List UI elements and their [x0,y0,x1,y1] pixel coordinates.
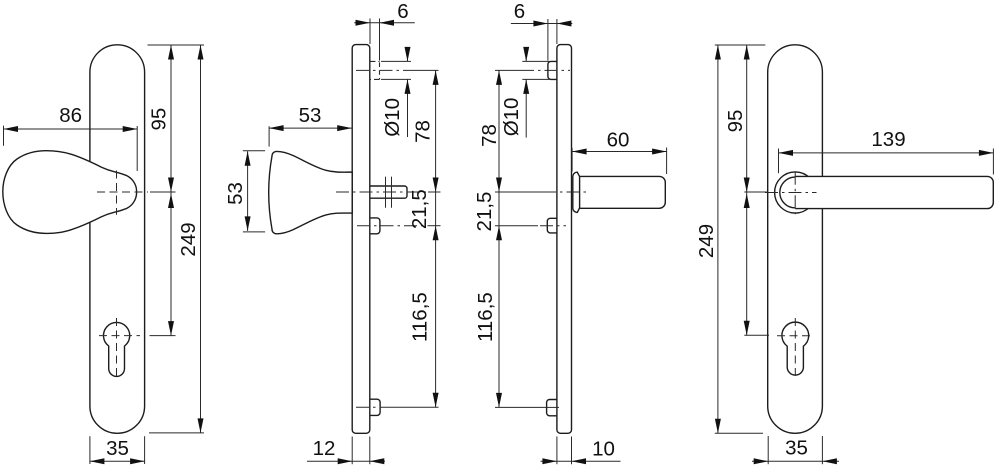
view1 bottom extension line [149,432,204,434]
dimension 139 line [779,152,994,154]
pz v4 top arrow [744,194,750,209]
dimension 139 left extension [778,149,780,174]
dimension 116,5 v3 bottom arrow [496,393,502,408]
hub vertical centre line [794,172,796,214]
dimension 10 ext b [571,437,573,465]
bottom screw head v3 [547,400,557,416]
dimension 35 right arrow [130,458,145,464]
dimension 53v top extension [243,150,265,152]
diameter 10 v3 dim line lower [525,79,527,137]
view1 backplate outline (stadium) [90,45,145,434]
dimension 6 v3 ext a [547,19,549,61]
dimension 35 v4 right arrow [822,458,837,464]
svg-text:249: 249 [177,222,200,256]
dimension 249 top arrow [198,45,204,60]
mid screw centre line [357,225,428,227]
diameter 10 v2 ext a [381,60,411,62]
dimension 53 horizontal line [269,127,352,129]
knob profile (side view) [269,151,353,233]
unlabelled pz-distance dimension line [170,192,172,336]
lever hub outer circle [775,172,816,213]
unlabelled pz dimension v4 line [746,192,748,335]
view2 backplate outline (side) [352,45,370,434]
bottom screw centre line v3 [495,406,546,408]
diameter 10 v2 lower arrow [405,79,411,94]
dimension 35 left arrow [90,458,105,464]
hub horizontal centre line [765,192,817,194]
dimension 6 v2 right arrow [380,20,395,26]
keyhole centre extension line [150,335,176,337]
diameter 10 v2 upper arrow [405,47,411,62]
view3 left dimension chain line [498,70,500,407]
svg-text:95: 95 [724,110,747,133]
view4 top extension line [715,44,766,46]
dimension 10 left arrow [542,458,557,464]
svg-text:21,5: 21,5 [473,192,496,232]
mid screw centre line v3 [495,225,538,227]
dimension 60 right arrow [652,149,667,155]
dimension 12 line [307,460,385,462]
dimension 86 right extension [136,126,138,171]
mid screw head [370,218,380,234]
svg-text:35: 35 [785,436,808,459]
dimension 35 v4 left arrow [754,458,769,464]
dimension 249 bottom arrow [198,418,204,433]
dimension 60 line [572,151,667,153]
dimension 60 left extension [571,148,573,172]
dimension 6 v2 ext b [379,19,381,61]
dimension 116,5 v2 bottom arrow [433,393,439,408]
keyhole v4 centre extension line [744,334,769,336]
top screw centre line v3 [495,69,521,71]
pz v4 bottom arrow [744,321,750,336]
dimension 139 left arrow [779,150,794,156]
lever hub inner circle [780,177,811,208]
dimension 86 right arrow [123,126,138,132]
view1 top extension line [148,44,205,46]
dimension 12 left arrow [338,458,353,464]
svg-text:10: 10 [592,437,615,460]
svg-text:53: 53 [299,104,322,127]
diameter 10 v3 lower arrow [523,79,529,94]
dimension 6 v2 left arrow [356,20,371,26]
dimension 35 left extension [89,436,91,464]
svg-text:78: 78 [412,120,435,143]
dimension 139 right arrow [979,150,994,156]
svg-text:53: 53 [224,182,247,205]
svg-text:116,5: 116,5 [474,292,497,342]
dimension 95 line [170,45,172,192]
dimension 12 ext a [351,437,353,465]
dimension 60 right extension [666,148,668,175]
svg-text:78: 78 [478,124,501,147]
bottom screw centre line [356,406,388,408]
svg-text:Ø10: Ø10 [500,98,523,137]
spindle centre line v3 [495,191,543,193]
diameter 10 v2 dim line lower [407,79,409,137]
view3 backplate outline (side) [557,45,572,434]
diameter 10 v2 ext b [381,78,411,80]
dimension 10 line [541,460,621,462]
mid screw head v3 [547,218,557,233]
dimension 86 left arrow [4,126,19,132]
dimension 86 left extension [3,126,5,146]
dimension 6 (view3) line [511,23,572,25]
hub centre extension line [744,191,768,193]
dimension 249 line [200,45,202,433]
knob centre line (horizontal dash) [97,191,148,193]
dimension 86 line [4,128,138,130]
spindle break line 2 [391,177,393,208]
diameter 10 v3 upper arrow [523,47,529,62]
top screw head v3 [548,61,557,79]
spindle (square shaft) [370,186,407,198]
dimension 10 ext a [556,437,558,465]
dimension 10 right arrow [572,458,587,464]
dimension 12 ext b [369,437,371,465]
svg-text:116,5: 116,5 [408,292,431,342]
dimension 35 line [90,460,145,462]
dimension 35 v4 ext a [767,436,769,464]
svg-text:6: 6 [514,0,525,23]
keyhole v4 vertical centre line [794,318,796,380]
dimension 6 v3 left arrow [533,21,548,27]
dimension 95 top arrow [168,45,174,60]
spindle centre line [336,191,428,193]
dimension 6 (view2) line [354,22,415,24]
bottom screw head [370,399,380,415]
diameter 10 v2 dim line upper [407,50,409,62]
top screw head (hidden, dashed) [370,60,380,62]
dimension 95 bottom arrow [168,178,174,193]
dimension 6 v3 right arrow [557,21,572,27]
dimension 95 v4 line [746,45,748,192]
lever bar (white fill masks hub/plate) [795,176,993,208]
diameter 10 v3 ext b [522,78,549,80]
svg-text:12: 12 [313,437,336,460]
lever bar outline [795,176,993,208]
keyhole horizontal centre line (dash) [99,335,140,337]
dimension 60 left arrow [572,149,587,155]
dimension 139 right extension [992,149,994,175]
view4 bottom extension line [715,432,763,434]
dimension 249 v4 top arrow [715,45,721,60]
dimension 53h left extension [268,126,270,146]
diameter 10 v3 dim line upper [525,49,527,61]
pz dimension bottom arrow [168,321,174,336]
svg-text:6: 6 [397,0,408,23]
lever collar (side) [573,172,580,212]
dimension 53v bottom extension [243,231,265,233]
dimension 6 v3 ext b [556,19,558,44]
knob neck base hidden line (vertical dash) [116,171,118,215]
svg-text:21,5: 21,5 [408,189,431,229]
dimension 53h left arrow [269,125,284,131]
dimension 35 v4 ext b [821,436,823,464]
euro cylinder keyhole [103,322,129,376]
svg-text:86: 86 [59,104,82,127]
dimension 12 right arrow [370,458,385,464]
dimension 53v top arrow [245,151,251,166]
dimension 6 v2 ext a [369,19,371,45]
dimension 53v bottom arrow [245,216,251,231]
dimension 21,5 v2 lower arrow [433,226,439,241]
dimension 249 v4 bottom arrow [715,419,721,434]
dimension 78 v2 bottom arrow [433,178,439,193]
svg-text:Ø10: Ø10 [381,98,404,137]
dimension 78 v2 top arrow [433,70,439,85]
dimension 78 v3 top arrow [496,70,502,85]
spindle break line 1 [385,177,387,208]
dimension 53 vertical line [247,151,249,231]
keyhole vertical centre line (dash) [116,318,118,380]
view4 backplate outline (stadium) [768,45,823,434]
svg-text:60: 60 [607,128,630,151]
lever grip (side) [580,176,666,208]
euro cylinder keyhole v4 [782,322,809,375]
svg-text:95: 95 [148,108,171,131]
dimension 249 v4 line [717,45,719,433]
top screw centre line [356,69,410,71]
keyhole v4 horizontal centre line [777,335,814,337]
pz dimension top arrow [168,194,174,209]
dimension 53h right arrow [337,125,352,131]
dimension 35 v4 line [752,460,839,462]
svg-text:249: 249 [695,224,718,258]
dimension 95 v4 bottom arrow [744,178,750,193]
dimension 21,5 v3 lower arrow [496,226,502,241]
knob (front view, white covers plate edge) [3,151,137,234]
knob centre extension line [150,191,176,193]
view2 right dimension chain line [435,70,437,407]
svg-text:139: 139 [871,128,905,151]
svg-text:35: 35 [106,437,129,460]
dimension 78 v3 bottom arrow [496,178,502,193]
dimension 35 right extension [144,436,146,464]
diameter 10 v3 ext a [522,60,549,62]
dimension 95 v4 top arrow [744,45,750,60]
